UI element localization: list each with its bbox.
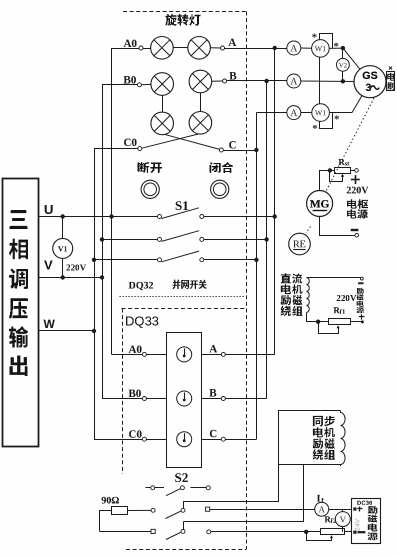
label B0: [124, 76, 136, 83]
terminal B: [223, 79, 227, 83]
wire B row to bus: [225, 398, 266, 400]
node S1 pole3 left junction: [92, 258, 96, 262]
lamp HL5: [151, 112, 174, 135]
generator GS: [354, 66, 386, 98]
node U-busA0 junction: [109, 214, 113, 218]
wire bus C0 (W phase vertical): [94, 148, 96, 439]
label 三相调压输出 (vertical): [10, 210, 28, 229]
wire B row to ammeter: [227, 80, 287, 82]
wire bus B (right): [266, 81, 268, 399]
wire meter box to B (DQ33): [202, 398, 221, 400]
terminal S1 pole2 right: [200, 237, 204, 241]
wire B0 row: [102, 84, 137, 86]
label DQ33: [126, 317, 158, 328]
terminal A0 (DQ33): [142, 352, 146, 356]
wire lamp HL5 diagonal to terminal C: [164, 134, 220, 149]
switch S1 blade pole1: [162, 208, 200, 219]
wire S2 pole1 mid: [155, 487, 164, 489]
wire S1 pole3 right: [204, 259, 257, 261]
switch S2 blade pole1: [166, 489, 181, 496]
label 闭合: [210, 162, 234, 173]
label Rf1: [333, 307, 340, 313]
wire W row: [39, 330, 94, 332]
wire bus C (right): [256, 113, 258, 440]
resistor Rst: [335, 168, 351, 174]
label 电源: [347, 209, 368, 218]
voltmeter V1 leads: [62, 217, 64, 239]
terminal S1 pole2 left: [158, 237, 162, 241]
label DC36 24V (grey): [355, 519, 360, 531]
wire A row to ammeter: [225, 48, 287, 50]
wire S2 pole2 up to sync field: [183, 501, 185, 508]
label A0 (DQ33): [129, 346, 142, 353]
voltmeter V2 top lead: [342, 48, 344, 58]
inductor GS field winding box: [279, 411, 341, 465]
rheostat Rf2 tap arrow: [307, 532, 332, 541]
terminal C0 (DQ33): [142, 437, 146, 441]
wire bus A (right): [274, 48, 276, 354]
label C (DQ33): [210, 430, 216, 437]
terminal S2 pole1 left: [151, 486, 155, 490]
wire diagonal row3 to GS: [352, 96, 362, 113]
label 220V field: [337, 295, 357, 301]
terminal C (DQ33): [221, 437, 225, 441]
wire S1 pole2 left: [102, 239, 158, 241]
terminal S1 pole1 right: [200, 215, 204, 219]
node S1 pole1 right junction: [273, 214, 277, 218]
node V2 bottom junction: [341, 79, 345, 83]
panel dashed border bottom: [126, 549, 246, 551]
node Rf1 tap junction: [316, 320, 320, 324]
DQ32 panel dashed border top: [123, 11, 246, 13]
voltmeter V2: [337, 58, 350, 71]
voltmeter V field: [335, 512, 350, 527]
label A: [228, 39, 236, 46]
motor MG: [307, 191, 333, 217]
label 同步电机励磁绕组: [313, 416, 323, 426]
rheostat Rf1 tap arrow: [319, 322, 339, 334]
label DC36 -: [357, 531, 365, 533]
terminal A0: [112, 48, 140, 50]
terminal S2 pole3 right: [181, 529, 185, 533]
wire minus row to Rf2: [211, 531, 320, 533]
terminal S2 pole2 right: [181, 508, 185, 512]
label 旋转灯: [166, 14, 201, 26]
terminal DC36 - (square): [353, 531, 356, 534]
wire A0 to lamp: [143, 48, 151, 50]
node S1 pole2 left junction: [100, 237, 104, 241]
wire meter box to C (DQ33): [202, 439, 221, 441]
label 直流电机励磁绕组: [281, 273, 291, 283]
wire diagonal row1 to GS: [343, 48, 360, 69]
voltmeter V leads: [342, 509, 344, 511]
label Rf2: [324, 516, 331, 522]
wire S2 pole1 stub right: [190, 487, 206, 489]
synchroscope box: [167, 333, 202, 468]
wire 90ohm left down: [100, 511, 112, 532]
node A-busA junction: [273, 46, 277, 50]
terminal C: [219, 148, 223, 152]
label - armature: [351, 229, 359, 231]
wire MG top: [320, 171, 335, 191]
node Rst tap junction: [328, 168, 332, 172]
terminal S1 pole3 left: [158, 258, 162, 262]
label If: [317, 495, 320, 502]
lamp HL3: [151, 73, 174, 96]
wire C0 row: [94, 148, 138, 150]
terminal B0: [137, 83, 141, 87]
label 90ohm: [102, 497, 119, 504]
wire sync field top to S2: [184, 465, 279, 502]
label + armature: [351, 179, 360, 181]
node U-V1 junction: [61, 214, 65, 218]
label B (DQ33): [209, 389, 216, 396]
voltmeter V1: [53, 238, 73, 258]
terminal armature +: [355, 169, 359, 173]
sync meter P3: [177, 432, 192, 447]
label C0: [124, 139, 136, 146]
wire A row to bus: [225, 354, 274, 356]
node V2 top junction: [341, 46, 345, 50]
terminal S2 pole2 left: [151, 508, 155, 512]
label S1: [176, 201, 189, 210]
sync meter P2: [177, 391, 192, 406]
wire field bottom: [307, 313, 329, 322]
terminal label U: [45, 205, 53, 214]
wire 90ohm to S2 pole2: [127, 509, 151, 511]
GS shaft mark x: [389, 67, 392, 70]
wire S1 pole3 left: [94, 259, 158, 261]
wire bus A0 (U phase vertical): [111, 48, 113, 354]
indicator lamp 断开: [141, 180, 159, 198]
terminal S2 pole1 end: [206, 486, 210, 490]
label C0 (DQ33): [129, 430, 141, 437]
wire Rf2 to DC36: [344, 531, 352, 533]
wire lamp HL3-HL5 vertical: [162, 95, 164, 112]
label + field supply: [359, 316, 365, 318]
label DC36 +: [357, 508, 362, 510]
wattmeter W1a: [312, 40, 330, 58]
terminal label V: [44, 261, 53, 270]
label B0 (DQ33): [129, 390, 141, 397]
wire B0 row (DQ33): [102, 398, 142, 400]
wire bus B0 (V phase vertical): [102, 85, 104, 399]
wire lamp HL4-HL6 vertical: [200, 93, 202, 112]
shaft coupling MG-RE dotted: [306, 227, 311, 234]
wire bus C top corner: [256, 112, 286, 114]
DQ33 dashed border left: [122, 309, 124, 475]
terminal A: [221, 46, 225, 50]
switch S2 pole1 left stub: [145, 487, 150, 489]
rheostat Rf1: [329, 319, 351, 325]
wattmeter W1a voltage loop: [320, 34, 333, 49]
wire lamp HL6 diagonal to terminal C0: [142, 134, 199, 148]
wire meter box to A (DQ33): [202, 354, 221, 356]
DQ33 dashed border top: [122, 308, 247, 310]
label - field supply: [358, 282, 363, 284]
switch S2 blade pole2: [166, 511, 182, 518]
power supply DC36 box: [352, 499, 381, 544]
wire C row to bus C: [223, 150, 256, 152]
label A0: [124, 40, 137, 47]
wire wattmeter common vertical: [319, 57, 321, 104]
wire W1a to node: [329, 47, 343, 49]
DQ32/DQ33 panel dashed border right: [246, 12, 248, 550]
switch S2 blade pole3: [166, 532, 181, 539]
label C: [229, 141, 235, 148]
terminal B0 (DQ33): [142, 397, 146, 401]
wire lamp HL2 to terminal A: [210, 47, 220, 49]
wattmeter W1b: [312, 104, 330, 122]
terminal C0: [138, 147, 142, 151]
node S1 pole3 right junction: [254, 258, 258, 262]
wire PA3 to W1b: [301, 112, 312, 114]
lamp HL6: [189, 112, 212, 135]
node V-busB0 junction: [100, 275, 104, 279]
label DC36: [357, 501, 372, 505]
polarity mark W1a left: [312, 34, 316, 38]
terminal B (DQ33): [221, 397, 225, 401]
terminal DC36 + (square): [353, 507, 356, 510]
inductor MG field winding: [307, 278, 310, 313]
node S1 pole2 right junction: [264, 237, 268, 241]
label 220V at V1: [66, 265, 86, 271]
shaft coupling GS-MG dotted: [326, 98, 374, 192]
wire C0 to meter box: [146, 439, 166, 441]
label 220V armature: [347, 187, 369, 194]
terminal field supply -: [360, 277, 363, 280]
wire MG bottom: [320, 217, 355, 236]
wire C0 row (DQ33): [94, 439, 142, 441]
terminal S2 pole2 feed (square): [206, 507, 210, 511]
polarity mark W1b left: [313, 125, 317, 129]
label 电枢: [347, 199, 368, 208]
terminal armature -: [355, 234, 359, 238]
ammeter PA3: [287, 106, 301, 120]
indicator lamp 闭合: [211, 180, 229, 198]
wire S1 pole2 right: [204, 239, 267, 241]
wire B0 to meter box: [146, 398, 166, 400]
wire W1b to diagonal: [329, 112, 352, 114]
terminal S2 pole1 right: [180, 486, 184, 490]
dotted separator under DQ32: [120, 296, 245, 298]
wire A0 to meter box: [146, 354, 166, 356]
voltmeter V2 bottom lead: [342, 71, 344, 81]
terminal S2 pole3 feed: [207, 530, 211, 534]
wire V row: [39, 277, 102, 279]
wire A0 row (DQ33): [112, 354, 143, 356]
rheostat Rf2: [321, 529, 345, 535]
wire S2 pole3 up to sync field: [183, 522, 185, 530]
label 并网开关: [173, 280, 207, 290]
node W-busC0 junction: [92, 329, 96, 333]
GS rotor brush box: [387, 72, 395, 91]
ammeter PA1: [287, 41, 301, 55]
label S2: [175, 473, 188, 482]
polarity mark W1a right: [334, 43, 338, 47]
wire S1 pole1 right: [204, 216, 275, 218]
terminal S2 pole3 left (square): [151, 529, 155, 533]
terminal A (DQ33): [221, 352, 225, 356]
ammeter If: [315, 502, 329, 516]
wire U row: [39, 216, 158, 218]
switch S1 blade pole3: [162, 251, 200, 262]
node C-busC junction: [254, 148, 258, 152]
wire If row: [210, 509, 315, 511]
wire lamp HL1-HL2: [173, 47, 188, 49]
node B-busB junction: [264, 79, 268, 83]
wire Rst right: [351, 170, 355, 172]
wire Rf1 right: [350, 321, 361, 323]
label 断开: [138, 162, 163, 173]
label 励磁电源 (DC36, vertical): [368, 506, 378, 514]
wire sync field bottom to S2: [184, 465, 304, 522]
label Rst: [338, 159, 345, 165]
wire C row to bus: [225, 439, 256, 441]
lamp HL1: [151, 37, 174, 60]
ammeter PA2: [287, 74, 301, 88]
label 励磁电源 (DC field, vertical): [357, 288, 364, 294]
label A (DQ33): [209, 345, 217, 352]
label DQ32: [129, 282, 154, 290]
wire 90ohm bottom to S2 pole3: [100, 531, 151, 533]
wire B0 to lamp: [141, 83, 151, 85]
wire lamp HL4 to terminal B: [212, 80, 223, 82]
terminal S1 pole3 right: [200, 258, 204, 262]
switch S1 blade pole2: [162, 231, 200, 242]
lamp HL4: [189, 70, 212, 93]
terminal S1 pole1 left: [158, 215, 162, 219]
terminal field supply +: [361, 320, 364, 323]
lamp HL2: [188, 37, 211, 60]
wattmeter W1b voltage loop: [320, 113, 333, 129]
node Rf2 tap junction: [304, 530, 308, 534]
GS rotor text: [387, 73, 394, 81]
wire field top: [307, 277, 362, 279]
sync meter P1: [177, 347, 192, 362]
three-phase regulator output box: [3, 179, 39, 447]
wire If to DC36: [329, 509, 352, 511]
terminal label W: [44, 320, 55, 328]
node V-V1 junction: [61, 275, 65, 279]
wire S1 pole1 left: [112, 216, 158, 218]
wire PA2 to GS: [301, 80, 354, 83]
tachometer RE: [289, 233, 311, 255]
resistor 90ohm: [112, 507, 128, 515]
rheostat Rst tap arrow: [330, 171, 343, 182]
polarity mark W1b right: [335, 115, 339, 119]
label B: [229, 72, 236, 79]
wire PA1 to W1a: [301, 47, 312, 49]
